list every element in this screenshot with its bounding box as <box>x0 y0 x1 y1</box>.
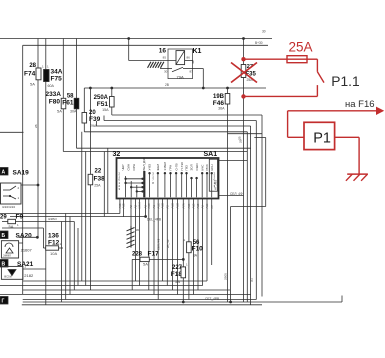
contact pin at x=202 <box>201 173 203 198</box>
svg-text:СЕЛ_4Ф: СЕЛ_4Ф <box>230 192 243 196</box>
contact pin at x=186 <box>186 173 188 198</box>
wire mesh bottom 5 <box>23 299 257 301</box>
svg-text:5A: 5A <box>57 109 62 114</box>
svg-text:А5: А5 <box>165 205 169 209</box>
svg-text:А7А: А7А <box>181 203 185 208</box>
svg-text:22: 22 <box>95 169 102 175</box>
svg-text:КСН: КСН <box>210 164 214 170</box>
svg-text:32: 32 <box>113 151 121 158</box>
svg-text:30A: 30A <box>70 110 77 114</box>
terminal tag D <box>0 297 8 305</box>
svg-text:34A: 34A <box>51 69 63 76</box>
node junction on bus at K1 feed <box>127 37 130 40</box>
wire SA19 to bus <box>21 184 38 186</box>
wire feed to F35 <box>243 39 245 303</box>
terminal tag C <box>0 260 8 268</box>
svg-text:10A: 10A <box>50 251 57 256</box>
wire SA1 pin А15 <box>197 199 199 291</box>
svg-text:АТ_WS: АТ_WS <box>213 180 217 190</box>
fuse F35 (bypassed) <box>241 65 246 78</box>
relay K1 pin 86 stub <box>185 60 193 62</box>
fuse F38 <box>88 174 93 185</box>
svg-text:25A: 25A <box>94 184 101 188</box>
svg-text:А7: А7 <box>210 205 214 209</box>
wire mesh bottom 6 (long) <box>23 301 342 303</box>
contact pin at x=192 <box>191 178 193 198</box>
contact pin at x=176 <box>175 173 177 198</box>
contact pin at x=158 <box>157 173 159 198</box>
svg-text:ЧЕР: ЧЕР <box>121 164 125 170</box>
svg-text:2B: 2B <box>165 83 169 87</box>
svg-text:SA1: SA1 <box>204 151 218 158</box>
svg-text:60A: 60A <box>48 84 55 88</box>
svg-text:ЖЕЛ: ЖЕЛ <box>156 164 160 171</box>
svg-text:F38: F38 <box>94 176 106 183</box>
wire SA20 to bus <box>19 236 38 238</box>
svg-text:5A: 5A <box>175 279 180 284</box>
connector block SA1 outline <box>117 158 219 199</box>
svg-text:87: 87 <box>190 69 194 73</box>
wire SA1 pin А2 <box>135 199 137 282</box>
wire SA1 pin А15 <box>192 199 194 295</box>
terminal tag A <box>0 168 8 176</box>
wire SA1 pin А1С <box>162 199 164 282</box>
svg-text:ГВЗ: ГВЗ <box>185 165 189 171</box>
relay K1 contact 30 <box>160 68 172 70</box>
wire SA1 pin А1 <box>153 199 155 295</box>
red wire arrow to relay P1 <box>287 111 289 138</box>
relay P1 (red box) <box>304 122 335 149</box>
bypass cross over F35 (red X) <box>231 63 257 83</box>
svg-text:228: 228 <box>132 252 143 258</box>
wire F9 branch <box>61 222 63 303</box>
svg-text:16: 16 <box>159 48 167 55</box>
wire SA1 pin А1С <box>177 199 179 295</box>
wire branch left y216 with junction <box>10 216 146 218</box>
svg-text:136: 136 <box>48 233 59 240</box>
wire feed to K1 coil <box>128 39 130 61</box>
red wire to added fuse <box>244 58 288 60</box>
bus bar inside SA1 <box>143 171 145 197</box>
svg-text:А1С: А1С <box>176 203 180 208</box>
switch P1.1 blade (red) <box>317 72 324 83</box>
wire SA1 pin А6 <box>202 199 204 286</box>
internal tie 4 <box>137 190 143 192</box>
svg-text:F17: F17 <box>148 251 160 258</box>
svg-text:СЖО: СЖО <box>195 163 199 171</box>
svg-text:А: А <box>2 170 6 176</box>
wire feed to F74 <box>37 39 39 238</box>
contact pin at x=212 <box>211 173 213 198</box>
switch SA21 body <box>1 266 23 279</box>
wire harness run 7 <box>63 151 247 153</box>
fuse F75 (60A, filled) <box>44 70 49 82</box>
ground (red) <box>347 173 368 175</box>
svg-text:3A: 3A <box>193 254 198 258</box>
svg-text:У-ВКЛ: У-ВКЛ <box>163 162 167 171</box>
relay K1 coil <box>176 51 185 65</box>
svg-text:2Б: 2Б <box>34 124 38 128</box>
svg-text:DEL_4PB: DEL_4PB <box>147 218 161 222</box>
svg-text:2Б05: 2Б05 <box>224 273 228 280</box>
svg-text:P1: P1 <box>313 131 331 147</box>
relay K1 contact 87 <box>183 68 195 70</box>
contact pin at x=182 <box>181 173 183 198</box>
node F46 tap <box>226 87 229 90</box>
red wire switch to lower tap <box>316 85 318 96</box>
contact pin at x=150 <box>149 173 151 198</box>
wire SA1 pin А16 <box>206 199 208 282</box>
wire branch y213 corner down <box>65 214 67 300</box>
red arrow to F16 <box>288 110 377 112</box>
node F39 tap <box>83 88 85 113</box>
svg-text:F75: F75 <box>51 76 63 83</box>
wire mounting-block left edge <box>22 45 24 294</box>
wire SA1 pin А1С <box>171 199 173 291</box>
wire right drop 1 <box>231 206 266 208</box>
svg-text:P1.1: P1.1 <box>331 74 359 89</box>
svg-text:ЖК2/ЖК2: ЖК2/ЖК2 <box>2 205 16 209</box>
svg-text:А6: А6 <box>201 205 205 209</box>
node mesh junction 1 <box>182 301 185 304</box>
node K1 output junction <box>202 87 205 90</box>
svg-text:А1С: А1С <box>171 203 175 208</box>
node junction on bus at F35 feed <box>242 37 245 40</box>
internal tie 1 <box>126 178 143 180</box>
relay K1 contact blade <box>172 67 183 72</box>
node F38 tap <box>89 87 92 90</box>
wire SA1 right exit lower <box>219 195 244 197</box>
svg-text:КЧС: КЧС <box>200 164 204 171</box>
svg-text:F10: F10 <box>192 246 204 253</box>
wire SA1 pin А1С <box>157 199 159 300</box>
wire SA1 pin А1Б <box>123 199 125 218</box>
contact pin at x=170 <box>170 173 172 198</box>
svg-text:ОРН: ОРН <box>132 164 136 171</box>
svg-text:СЕЛ_ЧФ: СЕЛ_ЧФ <box>157 239 161 250</box>
red node tap lower <box>241 94 245 98</box>
svg-text:F61: F61 <box>62 100 74 107</box>
svg-text:Б: Б <box>2 233 6 239</box>
svg-text:36A: 36A <box>218 107 225 111</box>
svg-text:А1С: А1С <box>156 203 160 208</box>
svg-text:K1: K1 <box>193 48 202 55</box>
wire branch y221 corner down 2 <box>73 222 75 291</box>
svg-text:О-ГВ: О-ГВ <box>174 164 178 171</box>
node F17-F18 junction <box>182 258 185 261</box>
wire F12 feed <box>2 227 43 229</box>
svg-text:21607: 21607 <box>21 248 33 253</box>
svg-text:А1Б: А1Б <box>122 203 126 208</box>
wire SA1 right exit upper <box>219 160 248 162</box>
svg-text:на F16: на F16 <box>345 99 375 110</box>
svg-text:1Б: 1Б <box>136 228 140 232</box>
wire SA1 pin А3 <box>145 199 147 217</box>
red wire P1 to ground <box>335 136 360 138</box>
svg-text:РОЗ: РОЗ <box>205 164 209 170</box>
switch SA20 body <box>1 241 18 258</box>
wire harness run 3 <box>97 125 251 127</box>
svg-text:А1З: А1З <box>147 203 151 208</box>
wire harness run 8 <box>77 147 251 149</box>
internal link col 2 <box>130 181 132 197</box>
wire feed to F80 <box>62 39 64 99</box>
svg-text:28: 28 <box>29 63 36 69</box>
wire mesh bottom 2 <box>0 285 203 287</box>
fuse F46 <box>225 94 230 105</box>
svg-text:ГРН: ГРН <box>169 165 173 171</box>
svg-text:F74: F74 <box>24 71 36 78</box>
contact pin at x=197 <box>196 178 198 198</box>
wire F38 lower leg <box>89 185 91 290</box>
wire input stub from left edge <box>0 131 24 133</box>
svg-text:А16: А16 <box>205 203 209 208</box>
wire harness run 1 <box>112 114 262 116</box>
wire SA1 pin А1З <box>148 199 150 291</box>
internal link col 4 dots <box>141 178 143 180</box>
wire mesh left verticals <box>81 132 83 281</box>
svg-text:F80: F80 <box>49 99 61 106</box>
switch SA19 body <box>1 183 22 204</box>
red wire fuse to switch <box>307 58 317 60</box>
svg-text:СИН: СИН <box>127 164 131 171</box>
wire distribution bus 2B <box>84 87 266 89</box>
wire harness run 6 <box>254 137 265 139</box>
connector SA1 right sub-box <box>209 159 217 191</box>
contact pin at x=165 <box>164 173 166 198</box>
fuse F61 (30A, filled) <box>74 98 79 109</box>
svg-text:СЕТ_4РВ: СЕТ_4РВ <box>205 297 219 301</box>
wire mesh bottom 7 (block bottom) <box>22 304 262 306</box>
wire SA1 pin А1Б <box>119 199 121 214</box>
wire branch left y213 <box>0 213 120 215</box>
svg-text:85: 85 <box>163 56 167 60</box>
svg-text:ЖМ4: ЖМ4 <box>138 202 142 209</box>
wire harness run 2 <box>104 120 256 122</box>
wire mesh bottom 1 <box>23 280 207 282</box>
svg-text:29A: 29A <box>90 124 97 128</box>
svg-text:2182: 2182 <box>24 273 34 278</box>
wire SA21 to bus <box>23 268 46 270</box>
svg-text:SA20: SA20 <box>16 233 33 240</box>
wire mesh bottom 3 <box>23 289 230 291</box>
svg-text:5A: 5A <box>30 82 35 87</box>
svg-text:2Б: 2Б <box>239 139 243 143</box>
chassis ground at K1 <box>148 62 164 68</box>
svg-text:А15: А15 <box>196 203 200 208</box>
wire right drop vertical <box>230 207 232 303</box>
terminal tag B <box>0 231 8 239</box>
chassis ground below SA1 <box>127 226 135 248</box>
svg-text:А2: А2 <box>129 205 133 209</box>
wire branch y228 corner down <box>77 228 79 286</box>
wire F17 left leg <box>131 259 133 290</box>
svg-text:79A: 79A <box>177 75 184 80</box>
wire K1 output <box>195 68 203 70</box>
internal tie 3 <box>131 186 142 188</box>
svg-text:П-Т30: П-Т30 <box>180 162 184 171</box>
svg-text:30: 30 <box>164 69 168 73</box>
wire top supply bus 30 <box>0 38 272 40</box>
fuse F80 <box>61 98 66 109</box>
wire mesh bottom 4 <box>0 294 251 296</box>
wire branch y216 corner down <box>69 217 71 295</box>
internal link col 3 <box>136 185 138 197</box>
svg-text:86: 86 <box>187 55 191 59</box>
wire SA1 pin А10 <box>188 199 190 300</box>
svg-text:F9: F9 <box>16 214 24 221</box>
svg-text:F51: F51 <box>97 101 109 108</box>
svg-text:B+30: B+30 <box>255 41 263 45</box>
svg-text:ЗМФЛ: ЗМФЛ <box>3 254 11 258</box>
wire harness run 5 <box>228 133 263 135</box>
wire SA1 pin ЖМ4 <box>139 199 141 286</box>
svg-text:ЗЧ: ЗЧ <box>250 278 254 282</box>
wire feed to F61 <box>76 39 78 99</box>
svg-text:29: 29 <box>0 215 7 221</box>
fuse F10 <box>187 242 192 253</box>
fuse F39 <box>82 113 87 124</box>
svg-text:А1С: А1С <box>161 203 165 208</box>
red node tap upper <box>241 57 245 61</box>
svg-text:5A: 5A <box>143 262 148 267</box>
fuse F74 <box>36 68 41 80</box>
svg-text:30: 30 <box>262 30 266 34</box>
svg-text:БЕЛ_Д30: БЕЛ_Д30 <box>142 157 146 170</box>
contact pin at x=207 <box>206 173 208 198</box>
svg-text:Г: Г <box>2 299 5 305</box>
svg-text:SA19: SA19 <box>13 170 30 177</box>
wire SA1 pin А2 <box>130 199 132 227</box>
svg-text:F39: F39 <box>89 116 101 123</box>
fuse F51 <box>110 97 115 108</box>
internal link col 1 <box>125 176 127 197</box>
wire harness run 4 <box>84 131 247 133</box>
svg-text:2В_ЧР: 2В_ЧР <box>166 239 170 248</box>
wire bus B+30 <box>23 44 268 46</box>
svg-text:У-ВЗ: У-ВЗ <box>148 164 152 171</box>
svg-text:25A: 25A <box>289 39 313 54</box>
wire SA1 pin А7А <box>182 199 184 303</box>
relay K1 outline <box>168 49 193 79</box>
svg-text:15A: 15A <box>102 108 109 112</box>
wire SA1 pin А5 <box>166 199 168 286</box>
svg-text:А15: А15 <box>192 203 196 208</box>
internal tie 2 <box>126 182 143 184</box>
svg-text:ЗОЛ: ЗОЛ <box>190 164 194 170</box>
svg-text:ФС5И: ФС5И <box>4 275 12 279</box>
node mesh junction 2 <box>229 301 232 304</box>
wire feed to F75 <box>45 39 47 306</box>
node F51 tap <box>110 87 113 90</box>
svg-text:233A: 233A <box>45 91 61 98</box>
added fuse 25A (red) <box>287 56 307 63</box>
svg-text:А10: А10 <box>187 203 191 208</box>
svg-text:ЖКБО: ЖКБО <box>48 217 57 221</box>
wire SA1 pin А7 <box>211 199 213 266</box>
